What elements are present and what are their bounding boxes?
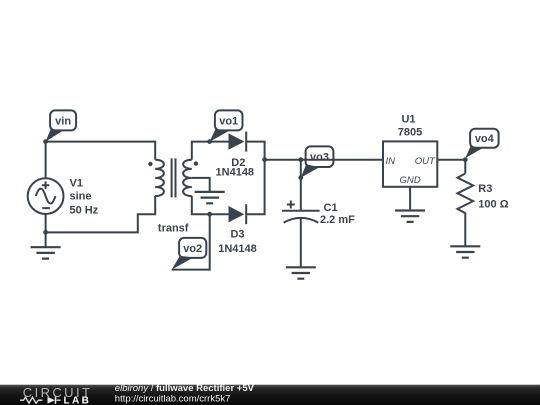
svg-text:vo3: vo3 — [310, 152, 329, 164]
resistor R3 zigzag — [458, 174, 474, 247]
wire D3 anode from vo2 junction — [210, 213, 229, 215]
wire U1 OUT to vo4 node — [437, 159, 465, 161]
transformer secondary phase dot — [194, 161, 198, 165]
source V1 minus sign — [42, 207, 50, 209]
flag vo2 — [172, 238, 207, 270]
svg-text:sine: sine — [70, 191, 92, 203]
capacitor C1 plus sign — [287, 201, 295, 209]
wire D2 cathode / D3 cathode vertical bus — [246, 142, 264, 215]
wire V1 ground node to transformer primary bottom — [46, 196, 156, 232]
svg-text:http://circuitlab.com/crrk5k7: http://circuitlab.com/crrk5k7 — [115, 393, 231, 404]
ground at capacitor C1 — [286, 267, 316, 278]
svg-text:100 Ω: 100 Ω — [478, 199, 508, 211]
transformer core lines — [172, 158, 176, 197]
svg-text:D3: D3 — [230, 229, 244, 241]
wire U1 GND pin to ground — [409, 187, 411, 211]
wire rectified node to U1 IN — [265, 159, 383, 161]
node dot vo1 — [207, 139, 212, 144]
wire vin node to V1 plus terminal — [45, 142, 47, 179]
node dot rectifier output — [262, 157, 267, 162]
wire C1 bottom to ground — [300, 219, 302, 268]
svg-text:1N4148: 1N4148 — [218, 243, 257, 255]
diode D3 triangle and cathode bar — [229, 206, 245, 222]
svg-text:7805: 7805 — [398, 127, 422, 139]
svg-text:vo4: vo4 — [475, 133, 495, 145]
svg-text:vo1: vo1 — [219, 115, 238, 127]
node dot vo2 junction — [207, 212, 212, 217]
capacitor C1 bottom curved plate — [284, 218, 319, 223]
ground at transformer center tap — [195, 192, 225, 203]
svg-text:GND: GND — [400, 175, 421, 186]
ground at resistor R3 — [450, 246, 480, 257]
wire V1 minus terminal to ground node — [45, 214, 47, 247]
svg-text:V1: V1 — [70, 178, 83, 190]
flag vo4 — [465, 129, 498, 158]
transformer primary winding — [155, 160, 164, 196]
svg-text:R3: R3 — [478, 183, 492, 195]
node dot vo3 top — [298, 157, 303, 162]
transformer secondary winding — [183, 160, 192, 196]
footer logo diode symbol — [48, 397, 56, 404]
wire vo2 junction down to vo2 flag — [172, 214, 210, 269]
wire transformer secondary top to diode D2 anode — [192, 142, 229, 160]
node dot vo3 anchor — [298, 175, 303, 180]
ground at U1 GND — [395, 211, 425, 222]
wire transformer center tap to ground — [192, 178, 210, 192]
svg-text:transf: transf — [158, 223, 189, 235]
svg-text:U1: U1 — [401, 114, 415, 126]
wire vo3 node down to capacitor C1 — [300, 160, 302, 210]
capacitor C1 top plate — [282, 210, 320, 212]
regulator U1 box — [383, 141, 437, 186]
svg-text:2.2 mF: 2.2 mF — [320, 214, 355, 226]
diode D2 triangle and cathode bar — [229, 133, 245, 149]
svg-text:vin: vin — [55, 115, 71, 127]
svg-text:50 Hz: 50 Hz — [70, 204, 99, 216]
svg-text:IN: IN — [386, 156, 396, 167]
flag vo3 — [301, 146, 334, 177]
ground at V1 — [31, 247, 61, 258]
node dot vo4 — [463, 157, 468, 162]
svg-text:OUT: OUT — [415, 156, 436, 167]
svg-text:vo2: vo2 — [183, 243, 202, 255]
wire vin node to transformer primary top — [46, 142, 156, 160]
node dot V1 ground junction — [43, 230, 48, 235]
source V1 circle — [28, 178, 64, 214]
node dot vin — [43, 139, 48, 144]
source V1 sine symbol — [36, 189, 56, 204]
svg-text:LAB: LAB — [64, 395, 92, 405]
footer bar — [0, 383, 540, 405]
source V1 plus sign — [42, 181, 50, 189]
transformer primary phase dot — [148, 162, 152, 166]
flag vo1 — [210, 110, 243, 141]
wire transformer secondary bottom to node vo2 junction — [192, 196, 210, 214]
wire vo4 node to resistor R3 top — [464, 160, 466, 174]
svg-text:elbirony / fullwave Rectifier: elbirony / fullwave Rectifier +5V — [115, 383, 255, 394]
svg-text:1N4148: 1N4148 — [216, 167, 255, 179]
svg-text:C1: C1 — [324, 202, 338, 214]
footer logo resistor squiggle — [20, 397, 43, 403]
flag vin — [46, 110, 77, 141]
